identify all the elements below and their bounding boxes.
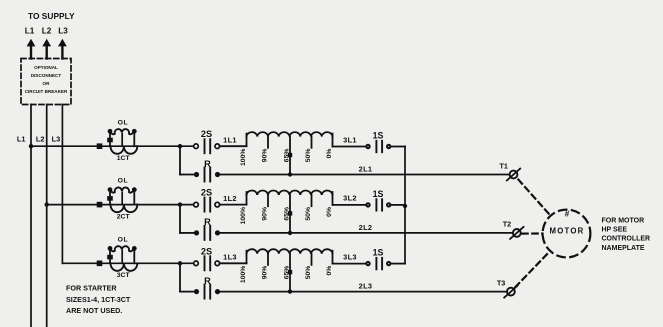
- svg-text:ARE NOT USED.: ARE NOT USED.: [66, 306, 122, 315]
- svg-text:T3: T3: [497, 278, 505, 287]
- svg-text:HP SEE: HP SEE: [602, 227, 628, 234]
- svg-text:2L1: 2L1: [359, 165, 373, 174]
- svg-text:50%: 50%: [305, 149, 312, 163]
- svg-text:50%: 50%: [305, 266, 312, 280]
- svg-text:OR: OR: [43, 81, 51, 86]
- svg-text:FOR STARTER: FOR STARTER: [66, 284, 117, 293]
- svg-text:L1: L1: [17, 134, 26, 143]
- svg-text:OPTIONAL: OPTIONAL: [34, 65, 58, 70]
- svg-text:R: R: [204, 217, 211, 227]
- svg-text:0%: 0%: [326, 207, 333, 217]
- svg-text:90%: 90%: [261, 207, 268, 221]
- svg-text:1S: 1S: [373, 248, 384, 258]
- svg-text:3L2: 3L2: [343, 194, 357, 203]
- svg-text:L3: L3: [58, 27, 68, 36]
- svg-text:0%: 0%: [326, 149, 333, 159]
- svg-text:90%: 90%: [261, 149, 268, 163]
- svg-text:2S: 2S: [201, 246, 212, 256]
- svg-text:#: #: [565, 210, 570, 219]
- svg-text:L1: L1: [25, 27, 35, 36]
- svg-text:100%: 100%: [240, 149, 247, 166]
- svg-text:CONTROLLER: CONTROLLER: [602, 236, 651, 243]
- svg-text:OL: OL: [118, 119, 129, 126]
- svg-text:50%: 50%: [305, 207, 312, 221]
- svg-text:OL: OL: [118, 178, 129, 185]
- svg-text:90%: 90%: [261, 266, 268, 280]
- svg-text:CIRCUIT BREAKER: CIRCUIT BREAKER: [25, 89, 68, 94]
- svg-text:1CT: 1CT: [117, 155, 131, 162]
- svg-text:SIZES1-4, 1CT-3CT: SIZES1-4, 1CT-3CT: [66, 295, 131, 304]
- svg-text:TO SUPPLY: TO SUPPLY: [28, 11, 75, 21]
- svg-text:65%: 65%: [283, 149, 290, 163]
- svg-text:1L3: 1L3: [223, 253, 237, 262]
- svg-text:1L1: 1L1: [223, 135, 237, 144]
- svg-text:1S: 1S: [373, 189, 384, 199]
- svg-text:R: R: [204, 276, 211, 286]
- svg-text:3L1: 3L1: [343, 135, 357, 144]
- svg-text:65%: 65%: [283, 266, 290, 280]
- svg-text:NAMEPLATE: NAMEPLATE: [602, 245, 645, 252]
- svg-text:2L3: 2L3: [359, 282, 373, 291]
- svg-text:R: R: [204, 159, 211, 169]
- svg-text:L2: L2: [42, 27, 52, 36]
- svg-text:100%: 100%: [240, 207, 247, 224]
- svg-text:2S: 2S: [201, 188, 212, 198]
- svg-text:0%: 0%: [326, 266, 333, 276]
- svg-text:DISCONNECT: DISCONNECT: [31, 73, 62, 78]
- svg-text:L2: L2: [36, 134, 45, 143]
- svg-text:L3: L3: [52, 134, 61, 143]
- svg-text:T1: T1: [500, 161, 508, 170]
- svg-text:FOR MOTOR: FOR MOTOR: [602, 217, 645, 224]
- svg-text:T2: T2: [503, 220, 511, 229]
- svg-text:1S: 1S: [373, 130, 384, 140]
- svg-text:65%: 65%: [283, 207, 290, 221]
- svg-text:2S: 2S: [201, 129, 212, 139]
- svg-text:1L2: 1L2: [223, 194, 237, 203]
- svg-text:2L2: 2L2: [359, 223, 373, 232]
- svg-text:MOTOR: MOTOR: [550, 226, 585, 235]
- svg-text:2CT: 2CT: [117, 213, 131, 220]
- svg-text:OL: OL: [118, 236, 129, 243]
- svg-text:3CT: 3CT: [117, 272, 131, 279]
- svg-text:3L3: 3L3: [343, 252, 357, 261]
- svg-text:100%: 100%: [240, 266, 247, 283]
